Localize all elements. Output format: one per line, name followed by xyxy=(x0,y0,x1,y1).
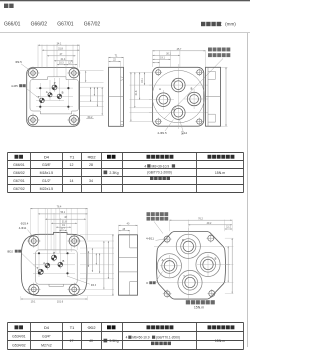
side view 1 face line xyxy=(120,67,122,126)
table1 screw note 3 lines xyxy=(144,164,175,180)
svg-text:10.3: 10.3 xyxy=(59,62,64,64)
svg-text:G67/01: G67/01 xyxy=(57,21,74,27)
fv2 port T xyxy=(38,269,43,274)
back view boss circle xyxy=(152,70,204,122)
back view 2 top dim chain xyxy=(169,219,232,221)
svg-text:G67/01: G67/01 xyxy=(13,179,25,183)
svg-text:4: 4 xyxy=(126,336,128,340)
back view plate outline xyxy=(153,67,204,126)
svg-text:31.8: 31.8 xyxy=(135,90,138,95)
front view port T xyxy=(40,98,45,103)
side view (bottom) top dims xyxy=(119,224,138,226)
back view corner hole BL xyxy=(156,119,161,124)
svg-text:45.7: 45.7 xyxy=(177,48,182,51)
svg-text:15N.m: 15N.m xyxy=(215,171,225,175)
svg-text:P: P xyxy=(54,81,56,85)
fv2 port A xyxy=(45,263,50,268)
svg-text:101.6: 101.6 xyxy=(57,300,64,303)
svg-text:Φ9.5: Φ9.5 xyxy=(15,60,22,64)
svg-text:15N.m: 15N.m xyxy=(194,305,204,309)
svg-text:Φ6.3: Φ6.3 xyxy=(91,284,97,287)
svg-text:B: B xyxy=(62,91,64,95)
svg-text:76.2: 76.2 xyxy=(198,217,203,220)
bolt hole fv2 TL xyxy=(29,236,39,246)
top dim extension lines xyxy=(37,45,39,69)
svg-text:G67/02: G67/02 xyxy=(84,21,101,27)
table1 headers xyxy=(15,155,19,159)
svg-text:B: B xyxy=(63,259,65,263)
bolt hole fv2 TR xyxy=(69,236,79,246)
svg-text:A: A xyxy=(162,258,164,262)
svg-text:4: 4 xyxy=(144,164,146,168)
front view top dimension chain xyxy=(38,44,80,46)
label ΦD2 port with leader xyxy=(7,250,40,271)
side view 2 counterbore steps xyxy=(208,71,215,122)
front view inner face with tabs xyxy=(30,77,79,114)
svg-text:30.1: 30.1 xyxy=(166,53,171,56)
back view 2 port left xyxy=(157,254,181,278)
svg-text:M22x1.5: M22x1.5 xyxy=(40,187,53,191)
svg-text:G1/2": G1/2" xyxy=(42,179,52,183)
svg-text:G534/02: G534/02 xyxy=(12,344,25,348)
side view 2 right dim xyxy=(225,67,227,126)
table2 screw note 2 lines xyxy=(126,336,180,346)
side view (bottom) steps xyxy=(130,235,138,295)
svg-text:T1: T1 xyxy=(70,154,75,159)
svg-text:D4: D4 xyxy=(44,325,50,330)
fv2 top dim extension lines xyxy=(29,208,31,236)
bolt hole front BL xyxy=(28,115,38,125)
back view corner hole TR xyxy=(197,70,202,75)
front view port A xyxy=(48,93,52,97)
svg-text:M6×50-10.9: M6×50-10.9 xyxy=(132,336,149,340)
svg-text:M6×30-10.9: M6×30-10.9 xyxy=(152,164,170,168)
side view 2 mid line xyxy=(206,96,221,98)
side view 1 seal notches xyxy=(121,77,124,125)
back view 2 port right xyxy=(196,252,220,276)
svg-text:19.1: 19.1 xyxy=(141,78,144,83)
side view 2 outline xyxy=(206,67,221,126)
side view 1 top dims xyxy=(109,57,124,59)
back view port top xyxy=(172,78,186,92)
back view corner hole TL xyxy=(156,70,161,75)
front view 2 inner face xyxy=(36,250,77,284)
bolt hole front TR xyxy=(69,68,79,78)
annotation 螺钉拧紧力矩 / 15N.m xyxy=(186,300,215,309)
svg-text:40: 40 xyxy=(89,339,93,343)
svg-text:A: A xyxy=(46,90,48,94)
svg-text:64.2: 64.2 xyxy=(88,116,93,119)
svg-text:4-Φ11: 4-Φ11 xyxy=(19,226,27,230)
svg-text:T1: T1 xyxy=(70,325,75,330)
page title 底板 xyxy=(4,4,14,8)
back view left dim chain xyxy=(130,72,132,121)
back view port centre lines xyxy=(177,64,179,129)
back view 2 port top (boss+rings) xyxy=(176,234,200,258)
svg-text:ΦD2: ΦD2 xyxy=(7,250,13,254)
svg-text:4-M5: 4-M5 xyxy=(11,84,18,88)
front view plate outline xyxy=(27,68,80,127)
right page border xyxy=(247,33,249,347)
side view (bottom) outline xyxy=(119,235,138,295)
fv2 bottom dim xyxy=(21,298,88,300)
bolt hole fv2 BR xyxy=(69,284,79,294)
svg-text:15N.m: 15N.m xyxy=(215,339,225,343)
model list G66/01 G66/02 G67/01 G67/02 xyxy=(4,21,100,27)
label 4-M5深10 with leader xyxy=(11,84,41,99)
fv2 port B xyxy=(58,262,63,267)
side view 2 face line xyxy=(207,67,209,126)
front view port B xyxy=(57,94,62,99)
svg-text:19.1: 19.1 xyxy=(160,57,165,60)
fv2 port P xyxy=(51,255,56,260)
front view pin dots xyxy=(39,87,41,89)
svg-text:G67/02: G67/02 xyxy=(13,187,25,191)
svg-text:G3/8": G3/8" xyxy=(42,163,52,167)
svg-text:P: P xyxy=(173,79,175,83)
annotation 底板安装面 / 四周O形圈 xyxy=(147,212,169,233)
table2 grid xyxy=(8,322,244,324)
svg-text:4-Φ11: 4-Φ11 xyxy=(146,237,154,241)
back view top dim chain xyxy=(153,50,206,52)
fv2 right dim chain xyxy=(88,251,90,267)
svg-text:12.7: 12.7 xyxy=(68,62,73,64)
side view (bottom) mid lines xyxy=(119,256,138,258)
header divider rule xyxy=(0,32,250,34)
svg-text:G534/01: G534/01 xyxy=(12,335,25,339)
svg-text:31.8: 31.8 xyxy=(58,47,63,50)
back view port bottom xyxy=(172,106,186,120)
svg-text:B: B xyxy=(215,257,217,261)
svg-text:49.2: 49.2 xyxy=(207,222,212,225)
svg-text:14: 14 xyxy=(70,179,74,183)
back view 2 port bottom xyxy=(178,270,202,294)
bolt hole front BR xyxy=(69,115,79,125)
leader to BR bolt hole xyxy=(68,276,91,284)
back view 2 plate outline (octagon) xyxy=(157,232,226,300)
svg-text:G3/4": G3/4" xyxy=(42,335,52,339)
front view centre lines xyxy=(39,83,41,110)
svg-text:P: P xyxy=(182,238,184,242)
svg-text:G66/02: G66/02 xyxy=(31,21,48,27)
svg-text:21.4: 21.4 xyxy=(61,58,66,61)
front view right dimension chain xyxy=(85,71,87,83)
table1 grid xyxy=(8,152,244,154)
fv2 centre lines xyxy=(38,255,40,277)
back view 2 right dim chain xyxy=(227,246,229,282)
svg-text:M27x2: M27x2 xyxy=(41,344,52,348)
svg-text:34.1: 34.1 xyxy=(57,42,62,45)
svg-text:G66/01: G66/01 xyxy=(4,21,21,27)
svg-text:3.5Kg: 3.5Kg xyxy=(109,339,118,343)
fv2 pin dots xyxy=(38,252,40,254)
front view port P xyxy=(52,85,57,90)
svg-text:12: 12 xyxy=(70,163,74,167)
label O形圈 xyxy=(146,272,163,286)
unit note 尺寸单位: (mm) xyxy=(201,22,236,27)
svg-text:(GB/T70.1-2000): (GB/T70.1-2000) xyxy=(156,336,180,340)
back view 2 corner holes xyxy=(164,236,170,242)
svg-text:31.8: 31.8 xyxy=(62,220,67,223)
svg-text:(GB/T70.1-2000): (GB/T70.1-2000) xyxy=(147,171,172,175)
back view port left xyxy=(157,93,171,107)
svg-text:11.1: 11.1 xyxy=(226,225,231,228)
back view corner hole BR xyxy=(197,119,202,124)
table2 headers xyxy=(15,325,19,329)
table1 weight 约2.3Kg xyxy=(104,171,119,176)
top page rule xyxy=(0,0,250,2)
front view 2 plate outline (barrel) xyxy=(21,232,87,295)
svg-text:28: 28 xyxy=(89,163,93,167)
svg-text:ΦD2: ΦD2 xyxy=(87,154,95,159)
svg-text:G66/01: G66/01 xyxy=(13,163,25,167)
svg-text:A: A xyxy=(43,261,45,265)
bolt hole fv2 BL xyxy=(29,284,39,294)
svg-text:A: A xyxy=(159,87,161,91)
side view 1 mid line xyxy=(109,96,124,98)
svg-text:ΦD2: ΦD2 xyxy=(87,325,95,330)
svg-text:D4: D4 xyxy=(44,154,50,159)
annotation 底板安装面 / 有O形圈槽 xyxy=(164,48,230,120)
svg-text:：(mm): ：(mm) xyxy=(221,22,237,27)
svg-text:17: 17 xyxy=(70,339,74,343)
side view 1 outline xyxy=(109,67,124,126)
svg-text:34: 34 xyxy=(89,179,93,183)
svg-text:G66/02: G66/02 xyxy=(13,171,25,175)
svg-text:2.3Kg: 2.3Kg xyxy=(109,171,118,175)
svg-text:4-Φ9.5: 4-Φ9.5 xyxy=(157,131,167,135)
bolt hole front TL xyxy=(28,68,38,78)
svg-text:P: P xyxy=(53,251,55,255)
fv2 top dimension chain xyxy=(30,208,87,210)
back view 2 centre lines xyxy=(187,228,189,302)
svg-text:19.1: 19.1 xyxy=(31,300,36,303)
svg-text:深12: 深12 xyxy=(181,130,188,135)
svg-text:M18x1.5: M18x1.5 xyxy=(40,171,53,175)
back view port right xyxy=(187,92,201,106)
svg-text:56.1: 56.1 xyxy=(60,211,65,214)
